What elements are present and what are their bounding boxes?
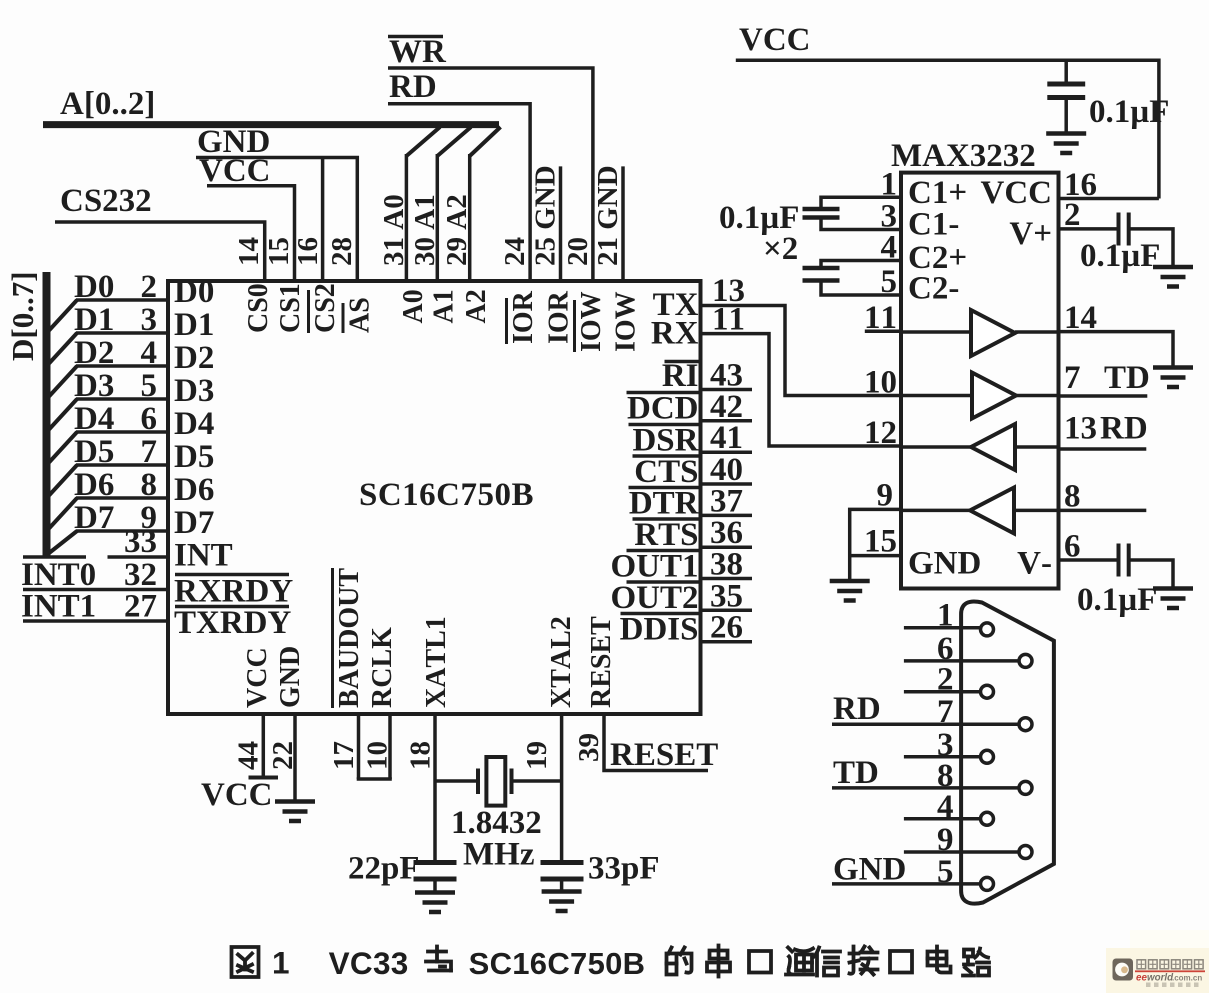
wire D3 to pin bbox=[76, 397, 168, 401]
wire TD to DB9 pin8 bbox=[832, 786, 1019, 790]
watermark red rule bbox=[1135, 970, 1205, 972]
svg-text:11: 11 bbox=[864, 300, 897, 336]
capacitor 22pF bbox=[414, 860, 457, 865]
wire GND stub pin 25 bbox=[559, 166, 563, 281]
svg-text:MAX3232: MAX3232 bbox=[891, 138, 1036, 174]
svg-text:33pF: 33pF bbox=[588, 851, 660, 887]
watermark slogan dots bbox=[1146, 983, 1151, 988]
wire out of buffer T4 bbox=[901, 509, 970, 513]
wire out of buffer T2 bbox=[1016, 394, 1059, 398]
svg-text:D3: D3 bbox=[174, 373, 214, 409]
watermark cream background bbox=[1106, 948, 1209, 993]
ground (33pF) bbox=[542, 889, 582, 894]
svg-text:39: 39 bbox=[573, 733, 605, 762]
wire into buffer T1 bbox=[901, 330, 971, 334]
wire C4 to ground bbox=[1131, 560, 1174, 588]
wire C3 to ground bbox=[1131, 229, 1174, 266]
svg-text:10: 10 bbox=[362, 741, 394, 770]
wire U2 pin3 bbox=[821, 220, 901, 230]
DDIS overline bbox=[621, 612, 699, 616]
DB9 pin 9 contact bbox=[1019, 846, 1032, 859]
crystal left plate bbox=[476, 769, 480, 795]
svg-text:D1: D1 bbox=[174, 307, 214, 343]
ground (C4) bbox=[1153, 586, 1193, 591]
svg-text:A[0..2]: A[0..2] bbox=[60, 86, 155, 122]
svg-text:D7: D7 bbox=[174, 505, 214, 541]
svg-text:RD: RD bbox=[833, 691, 881, 727]
wire U2 pin4 bbox=[821, 261, 901, 267]
svg-text:6: 6 bbox=[1064, 529, 1081, 565]
wire U2 pin9 bbox=[850, 509, 901, 580]
svg-text:D1: D1 bbox=[74, 302, 114, 338]
wire RD to pin 24 bbox=[388, 104, 530, 281]
svg-text:VCC: VCC bbox=[981, 175, 1053, 211]
RTS overline bbox=[633, 517, 699, 521]
crystal right plate bbox=[510, 769, 514, 795]
svg-text:GND: GND bbox=[833, 852, 906, 888]
svg-text:25 GND: 25 GND bbox=[530, 165, 562, 266]
IC U1 SC16C750B body bbox=[168, 281, 701, 714]
svg-text:5: 5 bbox=[881, 264, 898, 300]
pin 10 wire bbox=[388, 714, 392, 779]
bus tap diagonal to D3 bbox=[49, 399, 78, 430]
wire out of buffer T1 bbox=[1015, 330, 1059, 334]
svg-text:world: world bbox=[1147, 973, 1174, 984]
svg-text:27: 27 bbox=[124, 589, 157, 625]
svg-text:AS: AS bbox=[345, 297, 376, 333]
INT0 overline bbox=[23, 555, 86, 559]
pin 39 RESET wire bbox=[604, 714, 708, 771]
svg-text:VC33: VC33 bbox=[329, 945, 409, 981]
svg-text:8: 8 bbox=[141, 467, 158, 503]
svg-text:VCC: VCC bbox=[242, 647, 273, 708]
DB9 pin 8 contact bbox=[1019, 781, 1032, 794]
svg-text:16: 16 bbox=[292, 237, 324, 266]
wire DB9 pin1 bbox=[904, 626, 981, 630]
wire U2 pin1 bbox=[821, 197, 901, 207]
svg-text:VCC: VCC bbox=[739, 22, 811, 58]
svg-text:D6: D6 bbox=[174, 472, 214, 508]
wire joining pins 17-10 bbox=[357, 777, 392, 781]
svg-text:RD: RD bbox=[389, 69, 437, 105]
wire D0 to pin bbox=[76, 298, 168, 302]
TXRDY overline bbox=[175, 605, 289, 609]
wire D5 to pin bbox=[76, 463, 168, 467]
svg-text:D3: D3 bbox=[74, 368, 114, 404]
svg-text:1: 1 bbox=[881, 167, 898, 203]
svg-text:CS0: CS0 bbox=[243, 283, 274, 333]
ground (C5) bbox=[1046, 131, 1086, 136]
capacitor C5 0.1uF stub bbox=[1064, 60, 1068, 82]
DB9 pin 7 contact bbox=[1019, 718, 1032, 731]
svg-text:RX: RX bbox=[651, 316, 699, 352]
bus tap diagonal to A0 bbox=[406, 127, 440, 156]
DB9 pin 2 contact bbox=[981, 685, 994, 698]
wire U2 pin11 stub bbox=[865, 329, 901, 333]
wire RD to DB9 pin7 bbox=[832, 722, 1019, 726]
wire GND stub pin 21 bbox=[621, 166, 625, 281]
svg-text:MHz: MHz bbox=[463, 837, 534, 873]
svg-text:12: 12 bbox=[864, 415, 897, 451]
svg-text:7: 7 bbox=[1064, 360, 1081, 396]
svg-text:D[0..7]: D[0..7] bbox=[5, 271, 40, 361]
svg-text:21 GND: 21 GND bbox=[592, 165, 624, 266]
watermark logo tile bbox=[1113, 959, 1134, 981]
wire DB9 pin6 bbox=[904, 659, 1019, 663]
bus tap diagonal to D4 bbox=[49, 432, 78, 463]
caption 电 bbox=[928, 947, 951, 973]
pin 40 stub wire bbox=[701, 482, 753, 486]
svg-text:D0: D0 bbox=[74, 269, 114, 305]
wire GND to pins 16,28 bbox=[196, 158, 357, 282]
svg-text:22: 22 bbox=[267, 741, 299, 770]
caption 串 bbox=[707, 946, 730, 977]
svg-text:2: 2 bbox=[937, 662, 954, 698]
svg-text:VCC: VCC bbox=[201, 777, 273, 813]
bus tap diagonal to D0 bbox=[49, 300, 78, 331]
wire DB9 pin3 bbox=[904, 755, 981, 759]
wire INT1 to pin 27 bbox=[23, 619, 168, 623]
pin 42 stub wire bbox=[701, 419, 753, 423]
capacitor C4 plates bbox=[1117, 544, 1121, 577]
svg-text:33: 33 bbox=[124, 524, 157, 560]
pin 37 stub wire bbox=[701, 514, 753, 518]
buffer T3 (receive) bbox=[971, 424, 1015, 470]
svg-text:VCC: VCC bbox=[199, 153, 271, 189]
svg-text:30 A1: 30 A1 bbox=[409, 194, 441, 266]
wire U2 pin15 bbox=[850, 554, 901, 558]
svg-text:XTAL2: XTAL2 bbox=[546, 616, 577, 708]
AS overline bbox=[342, 303, 345, 333]
bus tap diagonal to D1 bbox=[49, 333, 78, 364]
OUT1 overline bbox=[627, 549, 699, 553]
buffer T2 bbox=[972, 373, 1016, 419]
caption 图 bbox=[232, 947, 259, 977]
IOR overline bbox=[505, 298, 508, 344]
wire GND to DB9 pin5 bbox=[832, 882, 981, 886]
svg-text:GND: GND bbox=[275, 646, 306, 708]
pin 22 GND stub bbox=[293, 714, 297, 801]
wire A1 vertical to pin 30 bbox=[436, 154, 440, 281]
svg-text:D4: D4 bbox=[174, 406, 214, 442]
svg-text:BAUDOUT: BAUDOUT bbox=[334, 568, 365, 708]
IC U2 MAX3232 body bbox=[901, 173, 1059, 589]
svg-text:37: 37 bbox=[710, 483, 743, 519]
svg-text:15: 15 bbox=[864, 524, 897, 560]
wire U2 pin14 to ground bbox=[1059, 332, 1174, 367]
svg-text:3: 3 bbox=[141, 302, 158, 338]
wire U2 pin2 V+ bbox=[1059, 227, 1117, 231]
wire WR to pin 20 bbox=[388, 68, 593, 281]
caption 路 bbox=[963, 949, 989, 976]
wire into buffer T2 bbox=[901, 394, 972, 398]
wire U2 pin8 bbox=[1059, 509, 1147, 513]
caption 接 bbox=[850, 947, 878, 975]
wire U2 pin5 bbox=[821, 283, 901, 296]
svg-text:1: 1 bbox=[937, 598, 954, 634]
wire U2 pin7 TD bbox=[1059, 394, 1148, 398]
svg-text:4: 4 bbox=[881, 230, 898, 266]
svg-text:15: 15 bbox=[263, 237, 295, 266]
caption 信 bbox=[814, 948, 840, 976]
caption 的 bbox=[667, 948, 692, 975]
wire INT pin 33 stub bbox=[108, 555, 169, 559]
wire into buffer T4 bbox=[1014, 509, 1059, 513]
pin 18 wire bbox=[433, 714, 437, 861]
svg-text:IOR: IOR bbox=[544, 290, 575, 344]
bus tap diagonal to D6 bbox=[49, 498, 78, 529]
svg-text:4: 4 bbox=[937, 789, 954, 825]
svg-text:IOW: IOW bbox=[611, 291, 642, 352]
svg-text:A1: A1 bbox=[429, 289, 460, 323]
RI overline bbox=[665, 360, 699, 364]
svg-text:RESET: RESET bbox=[586, 616, 617, 708]
IOW overline bbox=[573, 300, 576, 352]
VCC rail wire bbox=[736, 60, 1159, 198]
DSR overline bbox=[629, 423, 699, 427]
wire D7 to pin bbox=[76, 529, 168, 533]
svg-text:IOR: IOR bbox=[508, 290, 539, 344]
ground (pin14) bbox=[1153, 365, 1193, 370]
pin 43 stub wire bbox=[701, 388, 753, 392]
wire D2 to pin bbox=[76, 364, 168, 368]
svg-text:RCLK: RCLK bbox=[367, 627, 398, 708]
svg-text:WR: WR bbox=[389, 34, 447, 70]
svg-text:D5: D5 bbox=[74, 434, 114, 470]
wire DB9 pin2 bbox=[904, 690, 981, 694]
svg-text:TXRDY: TXRDY bbox=[174, 605, 292, 641]
pin 26 stub wire bbox=[701, 640, 753, 644]
caption 与 bbox=[426, 947, 451, 971]
wire U2 pin6 V- bbox=[1059, 558, 1117, 562]
svg-text:XATL1: XATL1 bbox=[421, 616, 452, 708]
svg-text:RI: RI bbox=[662, 358, 699, 394]
wire D6 to pin bbox=[76, 496, 168, 500]
svg-text:26: 26 bbox=[710, 610, 743, 646]
svg-text:38: 38 bbox=[710, 547, 743, 583]
svg-text:4: 4 bbox=[141, 335, 158, 371]
capacitor 33pF bbox=[541, 860, 584, 865]
svg-text:×2: ×2 bbox=[763, 231, 798, 267]
svg-text:D2: D2 bbox=[174, 340, 214, 376]
svg-text:18: 18 bbox=[405, 741, 437, 770]
wire A2 vertical to pin 29 bbox=[468, 154, 472, 281]
DB9 pin 5 contact bbox=[981, 877, 994, 890]
svg-text:C1-: C1- bbox=[908, 207, 959, 243]
svg-text:DDIS: DDIS bbox=[620, 612, 699, 648]
svg-text:31 A0: 31 A0 bbox=[378, 194, 410, 266]
svg-text:D0: D0 bbox=[174, 274, 214, 310]
svg-text:V-: V- bbox=[1017, 546, 1052, 582]
capacitor C1 plates bbox=[803, 207, 840, 212]
svg-text:IOW: IOW bbox=[576, 291, 607, 352]
pin 38 stub wire bbox=[701, 577, 753, 581]
wire DB9 pin9 bbox=[904, 850, 1019, 854]
bus tap diagonal to D7 bbox=[49, 531, 78, 554]
wire DB9 pin4 bbox=[904, 817, 981, 821]
svg-text:44: 44 bbox=[233, 741, 265, 770]
DB9 pin 1 contact bbox=[981, 623, 994, 636]
bus tap diagonal to D5 bbox=[49, 465, 78, 496]
svg-text:SC16C750B: SC16C750B bbox=[359, 477, 534, 513]
wire crystal to pin19 bbox=[512, 779, 562, 783]
svg-text:41: 41 bbox=[710, 420, 743, 456]
svg-text:20: 20 bbox=[562, 237, 594, 266]
svg-text:17: 17 bbox=[328, 741, 360, 770]
svg-text:22pF: 22pF bbox=[348, 851, 420, 887]
svg-text:DCD: DCD bbox=[627, 391, 699, 427]
ground (pin22) bbox=[275, 799, 315, 804]
svg-text:D4: D4 bbox=[74, 401, 114, 437]
svg-text:11: 11 bbox=[712, 302, 745, 338]
svg-text:29 A2: 29 A2 bbox=[441, 194, 473, 266]
svg-text:ee: ee bbox=[1136, 973, 1147, 984]
svg-text:2: 2 bbox=[141, 269, 158, 305]
svg-text:0.1µF: 0.1µF bbox=[1089, 94, 1169, 130]
DB9 J1 shell bbox=[961, 601, 1054, 903]
caption 口2 bbox=[890, 951, 912, 973]
svg-text:10: 10 bbox=[864, 365, 897, 401]
wire A0 vertical to pin 31 bbox=[405, 154, 409, 281]
svg-text:D6: D6 bbox=[74, 467, 114, 503]
svg-text:TD: TD bbox=[1104, 360, 1150, 396]
bus D[0..7] (thick vertical) bbox=[43, 272, 51, 556]
caption 通 bbox=[786, 948, 813, 975]
svg-text:5: 5 bbox=[937, 854, 954, 890]
pin 44 VCC stub bbox=[262, 714, 266, 777]
svg-text:CS1: CS1 bbox=[275, 283, 306, 333]
svg-text:0.1µF: 0.1µF bbox=[1080, 238, 1160, 274]
DB9 pin 3 contact bbox=[981, 750, 994, 763]
DTR overline bbox=[629, 486, 699, 490]
wire VCC to pin 15 bbox=[207, 186, 295, 281]
svg-text:0.1µF: 0.1µF bbox=[1077, 582, 1157, 618]
svg-text:8: 8 bbox=[1064, 479, 1081, 515]
crystal X1 body bbox=[486, 757, 505, 806]
pin 35 stub wire bbox=[701, 609, 753, 613]
pin 19 wire bbox=[560, 714, 564, 861]
svg-text:5: 5 bbox=[141, 368, 158, 404]
svg-text:2: 2 bbox=[1064, 197, 1081, 233]
wire RX pin11 to MAX pin12 bbox=[701, 334, 902, 446]
wire out of buffer T3 bbox=[901, 445, 971, 449]
bus tap diagonal to A2 bbox=[470, 127, 501, 156]
svg-text:14: 14 bbox=[1064, 300, 1097, 336]
capacitor C2 plates bbox=[803, 266, 840, 271]
wire U2 pin13 RD bbox=[1059, 447, 1147, 451]
bus tap diagonal to A1 bbox=[437, 127, 471, 156]
svg-text:CS232: CS232 bbox=[60, 183, 152, 219]
svg-text:A2: A2 bbox=[461, 289, 492, 323]
ground (22pF) bbox=[415, 890, 455, 895]
pin 17 wire bbox=[357, 714, 361, 779]
svg-text:6: 6 bbox=[141, 401, 158, 437]
pin 41 stub wire bbox=[701, 450, 753, 454]
svg-text:A0: A0 bbox=[398, 289, 429, 323]
svg-text:.com.cn: .com.cn bbox=[1172, 974, 1202, 983]
CS2 overline bbox=[307, 290, 310, 333]
bus tap diagonal to D2 bbox=[49, 366, 78, 397]
caption 口 bbox=[749, 951, 771, 973]
svg-text:CS2: CS2 bbox=[310, 283, 341, 333]
svg-text:24: 24 bbox=[499, 237, 531, 266]
svg-text:V+: V+ bbox=[1009, 216, 1052, 252]
DB9 pin 4 contact bbox=[981, 812, 994, 825]
svg-text:INT: INT bbox=[174, 538, 233, 574]
DCD overline bbox=[627, 391, 699, 395]
svg-text:9: 9 bbox=[877, 478, 894, 514]
wire U2 pin16 to VCC rail bbox=[1059, 197, 1159, 201]
svg-text:28: 28 bbox=[326, 237, 358, 266]
OUT2 overline bbox=[627, 580, 699, 584]
wire INT0 to pin 32 bbox=[23, 588, 168, 592]
svg-text:7: 7 bbox=[141, 434, 158, 470]
ground (C3) bbox=[1153, 265, 1193, 270]
pin 36 stub wire bbox=[701, 545, 753, 549]
CTS overline bbox=[633, 454, 699, 458]
buffer T1 bbox=[971, 310, 1015, 356]
svg-text:7: 7 bbox=[937, 694, 954, 730]
BAUDOUT overline bbox=[331, 568, 334, 708]
buffer T4 (receive) bbox=[970, 488, 1014, 534]
wire D4 to pin bbox=[76, 430, 168, 434]
svg-text:13: 13 bbox=[1064, 411, 1097, 447]
wire D1 to pin bbox=[76, 331, 168, 335]
RXRDY overline bbox=[175, 573, 289, 577]
svg-text:INT1: INT1 bbox=[21, 589, 96, 625]
capacitor C5 plates bbox=[1047, 82, 1085, 87]
svg-text:TD: TD bbox=[833, 755, 879, 791]
svg-text:C2-: C2- bbox=[908, 271, 959, 307]
ground (U2 pin15) bbox=[830, 579, 870, 584]
svg-text:19: 19 bbox=[521, 741, 553, 770]
capacitor C3 plates bbox=[1117, 213, 1121, 246]
wire into buffer T3 bbox=[1015, 445, 1059, 449]
svg-text:1: 1 bbox=[272, 945, 290, 981]
wire TX pin13 to MAX pin10 bbox=[701, 306, 902, 396]
svg-text:D7: D7 bbox=[74, 500, 114, 536]
svg-text:GND: GND bbox=[908, 546, 981, 582]
svg-text:RESET: RESET bbox=[610, 737, 718, 773]
svg-text:D5: D5 bbox=[174, 439, 214, 475]
bus A[0..2] (thick) bbox=[43, 121, 499, 128]
svg-text:14: 14 bbox=[233, 237, 265, 266]
wire pin18 to crystal bbox=[435, 779, 478, 783]
svg-text:SC16C750B: SC16C750B bbox=[469, 946, 646, 981]
svg-text:D2: D2 bbox=[74, 335, 114, 371]
svg-text:9: 9 bbox=[937, 822, 954, 858]
wire CS232 to pin 14 bbox=[55, 222, 265, 281]
watermark title 电子工程世界 bbox=[1137, 960, 1146, 969]
svg-text:RD: RD bbox=[1100, 411, 1148, 447]
DB9 pin 6 contact bbox=[1019, 654, 1032, 667]
